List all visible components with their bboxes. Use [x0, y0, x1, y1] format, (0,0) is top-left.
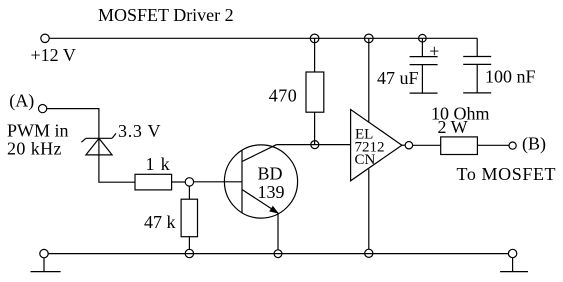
- svg-text:3.3 V: 3.3 V: [118, 121, 161, 141]
- svg-text:(A): (A): [9, 91, 34, 112]
- node 470 top junction: [310, 34, 319, 43]
- wire driver output stub: [402, 144, 405, 146]
- node 47uF top junction: [419, 34, 427, 42]
- wire 47k to ground rail: [188, 237, 190, 250]
- node 47k ground junction: [185, 249, 193, 257]
- wire rail to driver V+ pin: [368, 38, 370, 121]
- wire driver ground pin to rail: [368, 169, 370, 249]
- svg-text:1 k: 1 k: [146, 154, 171, 174]
- svg-text:To MOSFET: To MOSFET: [457, 164, 557, 184]
- terminal +12V: [41, 34, 49, 42]
- svg-text:(B): (B): [522, 134, 546, 155]
- node driver output: [405, 142, 412, 149]
- svg-text:20 kHz: 20 kHz: [7, 138, 62, 158]
- svg-text:+12 V: +12 V: [31, 45, 76, 65]
- op-amp U1 EL7212CN: [351, 110, 402, 181]
- wire +12V top rail: [49, 37, 477, 39]
- resistor 47 k: [181, 199, 197, 237]
- svg-text:100 nF: 100 nF: [485, 67, 536, 87]
- capacitor C2 100 nF: [463, 38, 491, 93]
- wire 10 Ohm to terminal B: [477, 144, 509, 146]
- wire zener to 1k resistor: [99, 155, 135, 182]
- svg-text:2 W: 2 W: [438, 117, 468, 137]
- node base junction: [185, 178, 193, 186]
- svg-text:47 uF: 47 uF: [377, 68, 419, 88]
- svg-text:47 k: 47 k: [144, 212, 176, 232]
- svg-text:CN: CN: [355, 152, 376, 168]
- wire input A to zener: [47, 109, 99, 139]
- resistor 1 k: [135, 174, 172, 190]
- resistor 470: [306, 72, 324, 112]
- wire collector to driver input: [277, 144, 351, 146]
- svg-text:MOSFET Driver 2: MOSFET Driver 2: [98, 5, 234, 25]
- wire 1k to base node: [172, 181, 186, 183]
- node driver supply top junction: [365, 34, 374, 43]
- node emitter ground junction: [274, 250, 282, 258]
- zener diode 3.3 V: [81, 133, 116, 155]
- transistor Q1 BD139: [224, 145, 297, 218]
- wire output to 10 Ohm: [413, 144, 441, 146]
- node driver ground junction: [365, 249, 373, 257]
- terminal ground left: [40, 249, 48, 257]
- terminal A: [39, 105, 47, 113]
- svg-text:BD: BD: [258, 164, 283, 184]
- capacitor C1 47 uF: [410, 38, 438, 93]
- resistor 10 Ohm: [441, 137, 478, 155]
- svg-text:470: 470: [269, 85, 298, 105]
- wire rail to 470: [314, 38, 316, 72]
- wire ground rail: [48, 253, 509, 255]
- ground symbol left: [31, 258, 61, 272]
- svg-text:139: 139: [258, 182, 285, 202]
- terminal ground right: [508, 249, 516, 257]
- node collector junction: [311, 141, 319, 149]
- wire emitter to ground rail: [277, 213, 279, 250]
- svg-text:+: +: [429, 41, 439, 61]
- svg-text:PWM in: PWM in: [7, 120, 69, 140]
- wire 470 to collector node: [314, 112, 316, 144]
- terminal B: [509, 142, 516, 149]
- ground symbol right: [500, 258, 528, 272]
- wire node to transistor base: [194, 181, 242, 183]
- wire node to 47k: [188, 186, 190, 199]
